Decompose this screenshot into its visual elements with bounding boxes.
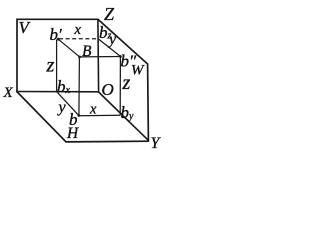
wire b'' to by (z dimension) bbox=[119, 57, 121, 116]
svg-text:X: X bbox=[3, 85, 14, 101]
svg-text:bx: bx bbox=[57, 77, 71, 96]
svg-text:O: O bbox=[102, 80, 114, 99]
svg-text:z: z bbox=[122, 72, 131, 94]
svg-text:Z: Z bbox=[104, 4, 115, 24]
svg-text:by: by bbox=[121, 103, 135, 122]
axis Y bbox=[99, 92, 149, 141]
wire bz to b'' (y dimension) bbox=[98, 39, 120, 57]
svg-text:Y: Y bbox=[151, 135, 162, 152]
svg-text:y: y bbox=[57, 99, 67, 116]
wire B to b'' bbox=[80, 56, 121, 58]
wire b' to B bbox=[58, 39, 79, 57]
node B bbox=[78, 56, 81, 59]
svg-text:y: y bbox=[107, 31, 117, 48]
axis Z bbox=[97, 19, 100, 92]
wire B to b bbox=[78, 57, 81, 116]
svg-text:z: z bbox=[46, 55, 55, 77]
wire b to by (x dimension) bbox=[79, 114, 120, 116]
plane V outline bbox=[17, 19, 98, 91]
node b bbox=[77, 114, 80, 117]
wire b' to bz (dashed, x dimension) bbox=[59, 38, 98, 40]
svg-text:x: x bbox=[74, 22, 82, 38]
node b'' bbox=[119, 55, 122, 58]
svg-text:b: b bbox=[69, 110, 78, 129]
wire b' to bx (z dimension) bbox=[56, 40, 58, 92]
svg-text:b″: b″ bbox=[121, 52, 138, 71]
svg-text:V: V bbox=[19, 18, 32, 37]
wire bx to b (y dimension) bbox=[57, 92, 79, 116]
svg-text:b′: b′ bbox=[50, 25, 63, 44]
svg-text:x: x bbox=[89, 102, 97, 118]
svg-text:B: B bbox=[82, 43, 92, 60]
axis X bbox=[16, 91, 99, 93]
node b' bbox=[57, 38, 60, 41]
plane W outline bbox=[98, 19, 148, 140]
plane H outline bbox=[17, 92, 149, 142]
